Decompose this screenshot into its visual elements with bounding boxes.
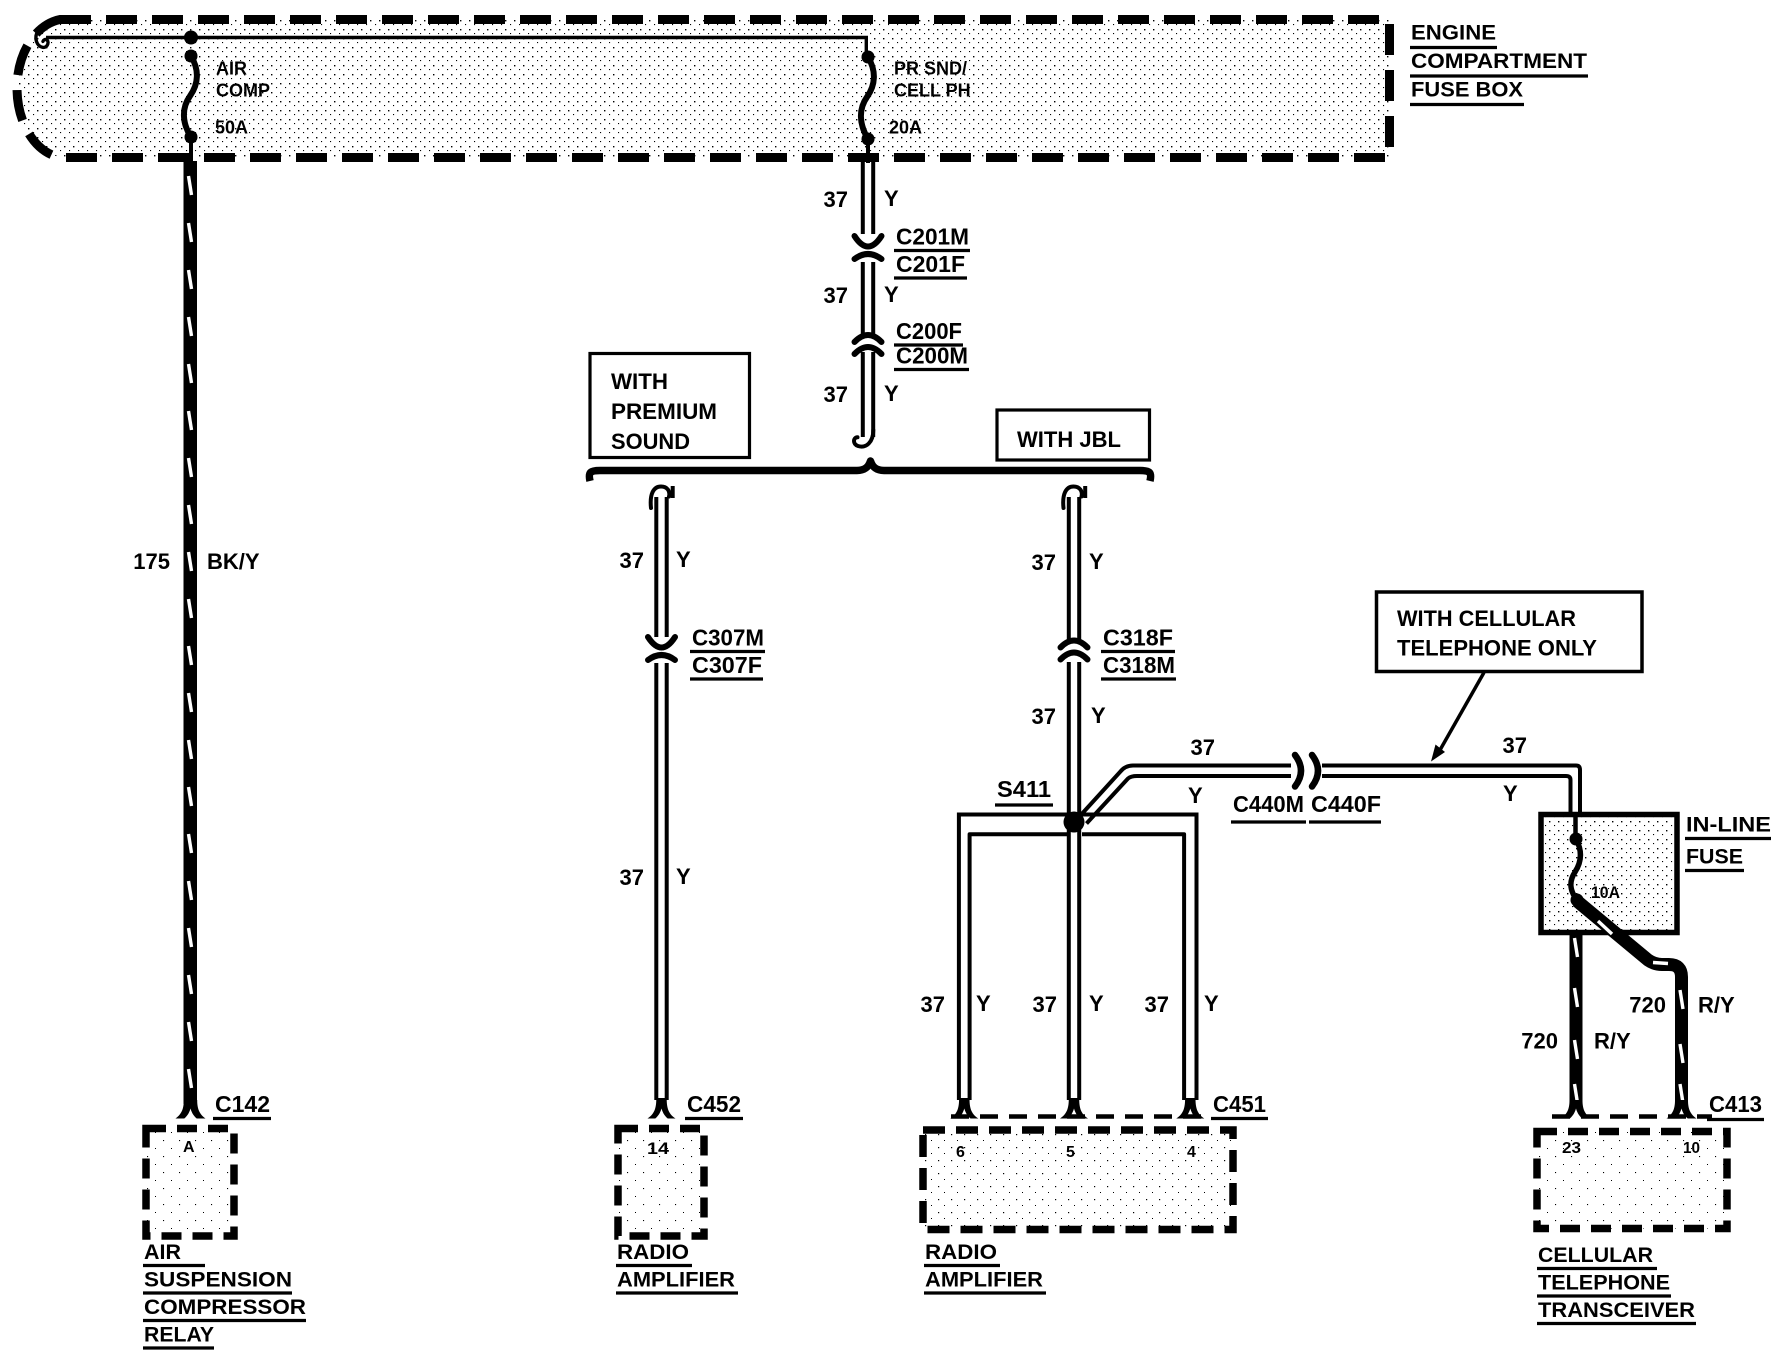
svg-text:37: 37: [921, 992, 945, 1017]
wire 720 R/Y left: [1521, 933, 1631, 1119]
wire 37 Y C318 to S411: [1032, 662, 1106, 818]
svg-text:PR SND/: PR SND/: [894, 59, 967, 79]
wire 37 Y S411 to C440: [1079, 735, 1291, 824]
svg-text:14: 14: [647, 1139, 670, 1158]
svg-text:720: 720: [1629, 993, 1666, 1018]
connector C142: [213, 1091, 271, 1119]
svg-text:Y: Y: [1188, 783, 1203, 808]
svg-text:COMP: COMP: [216, 81, 270, 101]
svg-text:5: 5: [1066, 1144, 1075, 1161]
svg-text:Y: Y: [884, 381, 899, 406]
svg-text:37: 37: [1503, 733, 1527, 758]
air suspension compressor relay box: [146, 1129, 234, 1237]
svg-text:WITH JBL: WITH JBL: [1017, 427, 1121, 452]
wire 37 Y S411 to C451 pin 4: [1080, 815, 1219, 1119]
splice S411: [995, 776, 1085, 833]
svg-text:R/Y: R/Y: [1698, 993, 1735, 1018]
svg-text:C200M: C200M: [896, 343, 968, 369]
wire 37 Y C440 to in-line fuse: [1322, 733, 1580, 814]
label CELLULAR TELEPHONE TRANSCEIVER: [1537, 1244, 1696, 1324]
svg-text:Y: Y: [884, 282, 899, 307]
svg-text:S411: S411: [997, 776, 1051, 802]
wire 37 Y fuse box to C201: [824, 162, 899, 234]
svg-text:WITH CELLULAR: WITH CELLULAR: [1397, 606, 1576, 631]
connector C451: [951, 1091, 1268, 1119]
svg-text:C451: C451: [1213, 1091, 1266, 1117]
wire 37 Y C201 to C200: [824, 262, 899, 334]
svg-text:37: 37: [824, 283, 848, 308]
svg-text:23: 23: [1562, 1140, 1581, 1157]
svg-text:R/Y: R/Y: [1594, 1029, 1631, 1054]
svg-text:C413: C413: [1709, 1091, 1762, 1117]
connector C307M / C307F: [648, 625, 765, 680]
svg-text:37: 37: [1145, 992, 1169, 1017]
svg-text:37: 37: [620, 865, 644, 890]
svg-text:720: 720: [1521, 1029, 1558, 1054]
svg-text:AMPLIFIER: AMPLIFIER: [617, 1269, 735, 1292]
connector C440M / C440F: [1231, 755, 1381, 822]
svg-text:WITH: WITH: [611, 369, 668, 394]
svg-text:TRANSCEIVER: TRANSCEIVER: [1538, 1299, 1695, 1322]
wire 37 Y bus to C318 (jbl branch): [1032, 486, 1104, 641]
connector C452: [685, 1091, 743, 1119]
svg-text:Y: Y: [1204, 991, 1219, 1016]
svg-text:C307F: C307F: [692, 652, 762, 678]
in-line fuse box: [1541, 814, 1771, 933]
callout WITH CELLULAR TELEPHONE ONLY: [1377, 592, 1643, 762]
svg-text:37: 37: [1191, 735, 1215, 760]
svg-text:37: 37: [1032, 550, 1056, 575]
wire 720 R/Y right: [1577, 901, 1735, 1119]
svg-text:4: 4: [1187, 1144, 1196, 1161]
svg-text:C440M: C440M: [1233, 791, 1304, 817]
svg-text:175: 175: [133, 549, 170, 574]
svg-text:ENGINE: ENGINE: [1411, 22, 1496, 45]
svg-text:37: 37: [824, 382, 848, 407]
callout WITH JBL: [997, 410, 1150, 460]
connector C200F / C200M: [855, 318, 970, 370]
engine compartment fuse box: [17, 20, 1390, 158]
svg-text:20A: 20A: [889, 118, 922, 138]
svg-text:Y: Y: [1089, 549, 1104, 574]
svg-text:RADIO: RADIO: [925, 1241, 997, 1264]
svg-text:SOUND: SOUND: [611, 429, 690, 454]
svg-text:CELL PH: CELL PH: [894, 81, 971, 101]
svg-text:37: 37: [1033, 992, 1057, 1017]
bus brace (splice bar): [589, 461, 1150, 481]
svg-text:FUSE BOX: FUSE BOX: [1411, 79, 1523, 102]
fuse 50A AIR COMP: [184, 50, 270, 164]
svg-text:RELAY: RELAY: [144, 1324, 214, 1347]
label RADIO AMPLIFIER (premium): [616, 1241, 738, 1293]
wire 37 Y S411 to C451 pin 6: [921, 815, 1068, 1119]
radio amplifier box (premium): [618, 1129, 704, 1237]
svg-text:C318M: C318M: [1103, 652, 1175, 678]
junction dot at AIR COMP fuse: [184, 31, 198, 45]
svg-text:10: 10: [1683, 1140, 1700, 1157]
svg-text:Y: Y: [1089, 991, 1104, 1016]
svg-text:Y: Y: [1503, 781, 1518, 806]
wire 37 Y bus to C307 (premium branch): [620, 486, 691, 637]
bus wire inside fuse box: [36, 25, 868, 47]
fuse 20A PR SND/CELL PH: [861, 36, 971, 163]
svg-text:C201F: C201F: [896, 251, 965, 277]
svg-text:AMPLIFIER: AMPLIFIER: [925, 1269, 1043, 1292]
svg-text:50A: 50A: [215, 118, 248, 138]
svg-text:C200F: C200F: [896, 318, 962, 344]
svg-text:FUSE: FUSE: [1686, 846, 1743, 869]
svg-text:A: A: [183, 1139, 195, 1156]
fuse 10A: [1570, 817, 1621, 907]
svg-text:SUSPENSION: SUSPENSION: [144, 1269, 292, 1292]
svg-text:37: 37: [1032, 704, 1056, 729]
svg-text:TELEPHONE ONLY: TELEPHONE ONLY: [1397, 636, 1597, 661]
svg-text:C440F: C440F: [1311, 791, 1381, 817]
svg-text:COMPRESSOR: COMPRESSOR: [144, 1296, 306, 1319]
svg-text:COMPARTMENT: COMPARTMENT: [1411, 50, 1587, 73]
svg-text:AIR: AIR: [144, 1241, 181, 1264]
label AIR SUSPENSION COMPRESSOR RELAY: [143, 1241, 306, 1348]
svg-text:Y: Y: [676, 864, 691, 889]
svg-text:C307M: C307M: [692, 625, 764, 651]
svg-text:Y: Y: [1091, 703, 1106, 728]
svg-text:C452: C452: [687, 1091, 741, 1117]
svg-text:6: 6: [956, 1144, 965, 1161]
svg-text:C318F: C318F: [1103, 625, 1173, 651]
cellular telephone transceiver box: [1537, 1132, 1727, 1229]
svg-text:TELEPHONE: TELEPHONE: [1538, 1272, 1670, 1295]
svg-text:Y: Y: [676, 547, 691, 572]
connector C318F / C318M: [1061, 625, 1177, 680]
svg-text:BK/Y: BK/Y: [207, 549, 260, 574]
svg-text:37: 37: [620, 548, 644, 573]
svg-text:PREMIUM: PREMIUM: [611, 399, 717, 424]
connector C413: [1552, 1091, 1764, 1120]
label ENGINE COMPARTMENT FUSE BOX: [1410, 22, 1588, 105]
svg-text:Y: Y: [976, 991, 991, 1016]
svg-text:CELLULAR: CELLULAR: [1538, 1244, 1653, 1267]
wire 37 Y S411 to C451 pin 5: [1033, 826, 1104, 1119]
svg-text:IN-LINE: IN-LINE: [1686, 814, 1771, 837]
svg-text:Y: Y: [884, 186, 899, 211]
svg-text:C201M: C201M: [896, 224, 969, 250]
wire 37 Y C200 to bus brace: [824, 352, 899, 447]
label RADIO AMPLIFIER (jbl): [924, 1241, 1046, 1293]
wire 175 BK/Y: [133, 161, 260, 1119]
wire 37 Y C307 to C452: [620, 663, 691, 1119]
svg-text:AIR: AIR: [216, 59, 247, 79]
svg-text:10A: 10A: [1591, 883, 1620, 902]
radio amplifier box (jbl): [923, 1130, 1233, 1230]
connector C201M / C201F: [855, 224, 971, 279]
callout WITH PREMIUM SOUND: [590, 354, 750, 458]
svg-text:37: 37: [824, 187, 848, 212]
svg-text:C142: C142: [215, 1091, 270, 1117]
svg-text:RADIO: RADIO: [617, 1241, 689, 1264]
